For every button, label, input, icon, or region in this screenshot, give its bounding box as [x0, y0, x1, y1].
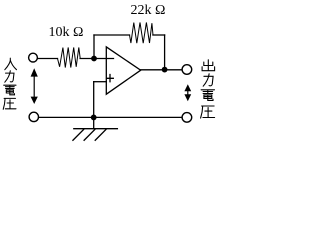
svg-text:10k Ω: 10k Ω	[49, 25, 84, 40]
terminal output top circle	[182, 65, 192, 75]
wire feedback top left	[94, 34, 130, 36]
char 圧 (input)	[3, 98, 16, 109]
junction dot ground node	[91, 115, 97, 121]
junction dot output node	[162, 67, 168, 73]
char 圧 (output)	[201, 106, 215, 118]
wire output: op-amp apex to output terminal	[141, 69, 182, 71]
terminal input top circle	[29, 53, 38, 62]
wire bottom rail	[39, 116, 182, 118]
ground hatch 2	[84, 129, 95, 140]
text 出力電圧 (output voltage) vertical	[201, 60, 215, 118]
op-amp plus label	[107, 75, 114, 82]
ground hatch 3	[95, 129, 106, 140]
char 電 (input)	[4, 85, 16, 95]
terminal output bottom circle	[182, 113, 192, 123]
ground hatch 1	[73, 129, 84, 140]
wire input top: terminal to R1	[37, 58, 57, 60]
char 力 (output)	[203, 74, 213, 86]
ground bar	[74, 128, 118, 130]
wire R1 to inverting input (with minus stub inside op-amp)	[80, 58, 113, 60]
text 入力電圧 (input voltage) vertical	[3, 58, 16, 109]
resistor R1 10kΩ zigzag	[58, 47, 81, 67]
arrow output voltage (double headed)	[184, 84, 191, 101]
junction dot node A (inverting input)	[91, 56, 97, 62]
char 入	[5, 58, 17, 69]
wire non-inverting input	[94, 81, 107, 83]
char 力 (input)	[5, 71, 14, 82]
char 出	[202, 60, 215, 71]
char 電 (output)	[201, 90, 214, 101]
op-amp U1 triangle	[106, 47, 140, 94]
wire feedback right vertical	[164, 35, 166, 70]
terminal input bottom circle	[29, 112, 38, 121]
wire plus input down to ground node	[93, 82, 95, 129]
arrow input voltage (double headed)	[31, 68, 38, 104]
wire feedback left vertical (node A up)	[93, 35, 95, 59]
wire feedback top right	[153, 34, 165, 36]
svg-text:22k Ω: 22k Ω	[131, 3, 166, 18]
resistor R2 22kΩ zigzag	[130, 23, 154, 44]
